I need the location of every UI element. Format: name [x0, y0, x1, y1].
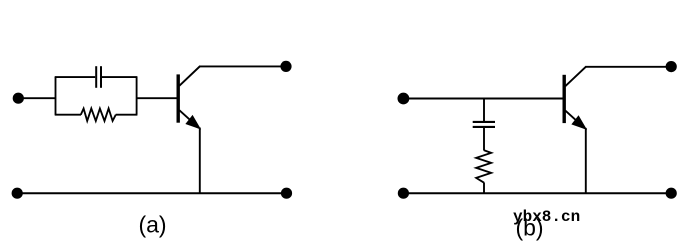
wire box bottom edge left segment (a)	[55, 114, 81, 116]
node collector output terminal (b)	[666, 61, 677, 72]
node bottom left terminal (a)	[12, 188, 23, 199]
transistor Q2 emitter arrowhead (b)	[572, 116, 586, 129]
transistor Q2 collector diagonal (b)	[565, 66, 586, 86]
wire box bottom edge right segment (a)	[116, 114, 138, 116]
node input terminal (a)	[13, 93, 24, 104]
wire box right edge (a)	[136, 77, 138, 115]
watermark ybx8.cn	[513, 208, 580, 226]
wire input to base (b)	[407, 98, 563, 100]
wire collector to output (a)	[200, 65, 287, 67]
wire resistor to rail (b)	[483, 183, 485, 195]
wire box top edge left segment (a)	[55, 76, 95, 78]
wire collector to output (b)	[586, 66, 672, 68]
transistor Q1 collector diagonal (a)	[179, 66, 200, 86]
label (b)	[515, 215, 543, 241]
resistor R2 zigzag (b)	[476, 150, 491, 182]
wire base lead (a)	[137, 97, 178, 99]
node bottom right terminal (a)	[281, 188, 292, 199]
wire bottom rail (a)	[17, 192, 287, 194]
wire bottom rail (b)	[403, 192, 671, 194]
transistor Q2 base bar (b)	[563, 75, 566, 123]
transistor Q1 base bar (a)	[176, 74, 179, 122]
resistor R1 zigzag (a)	[81, 109, 116, 121]
transistor Q1 emitter diagonal (a)	[179, 110, 199, 128]
wire box top edge right segment (a)	[102, 76, 137, 78]
wire capacitor to resistor (b)	[483, 128, 485, 151]
node collector output terminal (a)	[280, 61, 291, 72]
svg-text:(b): (b)	[515, 215, 543, 241]
wire junction down to capacitor (b)	[483, 99, 485, 122]
transistor Q2 emitter diagonal (b)	[565, 111, 585, 129]
capacitor C2 plates (b)	[473, 122, 495, 127]
node input terminal (b)	[398, 93, 410, 105]
node bottom right terminal (b)	[666, 188, 677, 199]
wire emitter down lead (b)	[585, 128, 587, 194]
wire box left edge (a)	[55, 77, 57, 115]
wire input to RC box (a)	[22, 97, 56, 99]
transistor Q1 emitter arrowhead (a)	[186, 116, 200, 129]
capacitor C1 plates (a)	[96, 66, 101, 88]
svg-text:(a): (a)	[138, 212, 166, 238]
node bottom left terminal (b)	[398, 188, 409, 199]
label (a)	[138, 212, 166, 238]
wire emitter down lead (a)	[199, 128, 201, 195]
